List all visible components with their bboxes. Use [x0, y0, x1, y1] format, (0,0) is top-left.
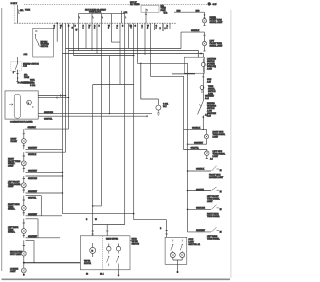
right switch symbol upper — [198, 101, 205, 118]
combination flasher box — [5, 91, 38, 119]
svg-text:GRN/BLK: GRN/BLK — [191, 30, 200, 32]
svg-text:B: B — [86, 219, 88, 221]
svg-text:BLK: BLK — [163, 106, 167, 108]
wire from switch down to H129 — [202, 117, 204, 129]
wire to right lamp 2 — [181, 32, 205, 48]
svg-text:2: 2 — [54, 28, 55, 30]
svg-text:W: W — [76, 29, 78, 31]
flasher lower wire 2 — [38, 115, 148, 117]
drop from H4 to lower wire — [108, 56, 110, 114]
bus drop 13 (long, to bottom right box) — [131, 23, 134, 220]
left wire L2 feed — [26, 151, 66, 153]
bus drop 14 (corner to right column) — [135, 23, 188, 232]
svg-text:GRN/ORN: GRN/ORN — [196, 207, 206, 209]
svg-text:B: B — [99, 25, 101, 27]
fuse in box — [146, 9, 147, 12]
washer box top marks — [35, 31, 38, 32]
svg-text:FUSE BLOCK: FUSE BLOCK — [89, 12, 102, 14]
svg-text:G-W: G-W — [213, 4, 217, 6]
HOT IN RUN rail — [79, 14, 125, 85]
left wire L5 gnd — [26, 237, 61, 239]
svg-text:LIGHT: LIGHT — [213, 137, 219, 139]
svg-text:MARKER LIGHT: MARKER LIGHT — [209, 176, 224, 179]
svg-text:RED: RED — [177, 10, 182, 12]
svg-text:GRN/YEL: GRN/YEL — [44, 119, 52, 121]
lamp L7 — [21, 263, 26, 274]
svg-text:1: 1 — [117, 28, 118, 30]
right branch switch 1 — [187, 166, 222, 172]
bottom right feed — [134, 220, 167, 238]
svg-text:B: B — [160, 28, 162, 30]
above-bus vertical from HOT box — [145, 12, 147, 23]
svg-text:GRN/WHT: GRN/WHT — [28, 214, 38, 216]
arrows inside box — [9, 104, 13, 106]
svg-text:SIGNAL LIGHT: SIGNAL LIGHT — [210, 44, 224, 47]
lamp3 return wire — [188, 139, 207, 145]
bus drop 16 (corner to right column) — [147, 23, 184, 129]
svg-text:GRN/YEL: GRN/YEL — [196, 190, 204, 192]
top dashed panel line — [24, 4, 215, 6]
svg-text:GRN/BLK: GRN/BLK — [192, 128, 201, 130]
svg-text:W: W — [95, 219, 97, 221]
svg-text:A 2: A 2 — [210, 158, 213, 161]
flasher output wire 2 — [38, 97, 68, 99]
bus junction dot — [56, 22, 58, 24]
svg-text:SWITCH: SWITCH — [41, 46, 49, 48]
left wire L5 feed — [26, 219, 39, 238]
bus drop 15 — [142, 23, 146, 55]
bottom center connections — [93, 85, 102, 236]
right lamp 4 feed — [184, 150, 207, 152]
svg-text:1: 1 — [167, 28, 168, 30]
left wire L1 feed — [25, 128, 69, 130]
svg-text:RED: RED — [196, 10, 201, 12]
svg-text:G 202: G 202 — [30, 85, 35, 87]
top-right corner symbol — [208, 2, 211, 5]
svg-text:GRN/YEL: GRN/YEL — [28, 198, 36, 200]
bus drop 12 — [129, 23, 132, 48]
H 213.6 collector — [63, 213, 134, 215]
right lamp 4 — [205, 151, 209, 155]
svg-text:LIGHT: LIGHT — [8, 186, 14, 188]
lamp4 ground stub — [206, 155, 208, 158]
svg-text:FUSE: FUSE — [25, 10, 31, 12]
svg-text:SWITCH: SWITCH — [132, 244, 140, 246]
braid H3 — [63, 54, 204, 58]
svg-text:REAR WIPER: REAR WIPER — [106, 237, 119, 240]
svg-text:L: L — [28, 103, 29, 105]
connector arrow A — [204, 12, 206, 19]
lamp right-1 — [202, 19, 206, 23]
ground dot under L7 — [23, 274, 25, 276]
left wire L2 gnd — [26, 171, 63, 173]
switches inside — [171, 240, 173, 253]
svg-text:FUSE: FUSE — [24, 77, 30, 79]
svg-text:LIGHT: LIGHT — [10, 271, 16, 273]
bus drop 6 — [76, 23, 79, 50]
bus drop 5 (H4 corner) — [74, 23, 77, 55]
bus drop 9 — [108, 23, 120, 42]
svg-text:TURN SIGNAL: TURN SIGNAL — [207, 238, 220, 241]
svg-text:COMBINATION FLASHER: COMBINATION FLASHER — [10, 121, 33, 124]
svg-text:A 305: A 305 — [207, 68, 212, 71]
H feed lamp3 — [184, 129, 207, 134]
bus drop 4 (long, lamp1 feed) — [69, 23, 74, 129]
svg-text:FRONT: FRONT — [11, 141, 18, 143]
svg-text:4: 4 — [156, 28, 157, 30]
motor circle inside — [27, 100, 32, 105]
svg-text:A 16: A 16 — [207, 115, 211, 118]
small circle right chain — [200, 86, 204, 90]
svg-text:GRN/YEL: GRN/YEL — [191, 148, 199, 150]
x183.5 continues to lamp4 feed — [183, 129, 185, 149]
lamp L4 — [21, 196, 26, 216]
lamp L6 — [21, 240, 26, 262]
left wire L4 feed — [26, 196, 42, 216]
svg-text:6: 6 — [131, 28, 132, 30]
svg-text:21 1: 21 1 — [100, 274, 104, 276]
bus drop 8 (long, to bottom box) — [99, 23, 102, 206]
svg-text:GRN/ORN: GRN/ORN — [28, 178, 38, 180]
ground below bottom center box — [118, 270, 120, 276]
svg-text:SWITCH A 21: SWITCH A 21 — [188, 243, 200, 246]
svg-text:3: 3 — [165, 28, 166, 30]
svg-text:SIGNAL: SIGNAL — [8, 231, 15, 234]
left switch (hazard) dashed box — [11, 57, 21, 82]
svg-text:GRN/BLK: GRN/BLK — [28, 127, 37, 129]
connector rounded rect inside — [14, 94, 20, 118]
svg-text:B: B — [122, 25, 124, 27]
svg-text:G: G — [135, 25, 137, 27]
svg-text:STOP LIGHT: STOP LIGHT — [10, 254, 22, 256]
lamps inside bottom right box — [170, 253, 175, 258]
flasher output wire 1 — [38, 94, 65, 96]
bus drop 10 — [117, 23, 121, 84]
lamp L1 — [21, 129, 26, 149]
svg-text:M: M — [92, 251, 94, 253]
braid H2 — [69, 51, 199, 58]
washer switch box — [33, 28, 54, 57]
element inside right box — [202, 59, 204, 73]
switch inside washer box — [36, 36, 40, 47]
svg-text:3: 3 — [60, 28, 61, 30]
svg-text:2: 2 — [13, 72, 14, 74]
right chain: defogger box — [184, 57, 204, 73]
svg-text:GRN/WHT: GRN/WHT — [28, 236, 38, 238]
svg-text:TURN SIGNAL: TURN SIGNAL — [207, 215, 220, 218]
left wire L3 feed — [26, 175, 63, 177]
switches below circles — [107, 251, 109, 266]
right branch switch 3 — [187, 205, 222, 211]
wire to right lamp chain — [174, 11, 205, 13]
svg-text:GRN/WHT: GRN/WHT — [28, 170, 38, 172]
bus drop 1 — [54, 23, 58, 42]
ground G101 — [16, 78, 19, 84]
svg-text:30 15 X: 30 15 X — [11, 3, 18, 5]
bottom center box — [80, 236, 130, 270]
svg-text:18: 18 — [86, 274, 88, 276]
dashed bus line — [14, 22, 176, 24]
svg-text:7: 7 — [142, 28, 143, 30]
below right box: connector — [202, 73, 204, 101]
left wire L6 feed — [26, 240, 35, 262]
left wire L4 gnd — [26, 215, 63, 217]
braid H4 — [74, 55, 134, 57]
svg-text:GRN/ORN: GRN/ORN — [44, 112, 54, 114]
bottom right box — [165, 237, 187, 264]
page bottom edge — [2, 278, 231, 280]
ground below bottom right box — [177, 264, 179, 271]
svg-text:SIGNAL LIGHT: SIGNAL LIGHT — [210, 21, 224, 24]
jog H — [93, 84, 134, 86]
svg-text:5: 5 — [89, 28, 90, 30]
left wire L1 gnd — [26, 148, 63, 150]
HOT AT ALL TIMES box — [141, 6, 159, 13]
bus drop 19 — [167, 23, 171, 29]
junction dot H4/drop13 — [133, 55, 135, 57]
svg-text:LIGHT: LIGHT — [8, 165, 14, 167]
svg-text:GRN/WHT: GRN/WHT — [28, 147, 38, 149]
thick dark wire — [24, 262, 81, 264]
svg-text:A 16: A 16 — [207, 81, 211, 84]
svg-text:A 14: A 14 — [205, 97, 209, 100]
bus drop 7b — [89, 23, 93, 50]
svg-text:B: B — [75, 25, 77, 27]
lamp L2 — [21, 152, 26, 172]
dashed divider — [101, 236, 103, 270]
connector tick — [14, 71, 19, 73]
bus drop 11 (long, to bottom box) — [122, 25, 125, 224]
svg-text:GRN/WHT: GRN/WHT — [28, 191, 38, 193]
svg-text:2: 2 — [94, 28, 95, 30]
lamp L5 — [21, 219, 26, 238]
rail fuse blobs — [79, 17, 126, 19]
small dot inside — [32, 106, 33, 107]
svg-text:ALL TIMES: ALL TIMES — [130, 3, 140, 6]
svg-text:LIGHT: LIGHT — [207, 201, 213, 203]
svg-text:W-R: W-R — [164, 13, 168, 15]
svg-text:LIGHT: LIGHT — [213, 156, 219, 158]
junction dot braid H3 — [200, 53, 202, 55]
bus drop 3 (long, lamp2 feed) — [66, 23, 71, 152]
dashed fuse panel left edge — [13, 5, 15, 22]
dark wire segment right — [172, 73, 195, 75]
bus drop 7c — [94, 23, 97, 53]
above-bus vertical at 121.5 — [121, 11, 123, 23]
svg-text:A 21: A 21 — [124, 11, 128, 14]
page right edge — [230, 10, 232, 278]
svg-text:GRN/WHT: GRN/WHT — [194, 142, 204, 144]
svg-text:1: 1 — [83, 28, 84, 30]
junction dot — [17, 77, 18, 78]
page left edge — [1, 8, 3, 271]
svg-text:2: 2 — [147, 28, 148, 30]
bus drop 2 (to H3) — [60, 23, 63, 213]
svg-text:GRN/WHT: GRN/WHT — [196, 230, 206, 232]
fuse F1 — [18, 5, 20, 23]
right lamp 3 — [204, 134, 208, 138]
svg-text:GRN/BLK: GRN/BLK — [196, 169, 205, 171]
svg-text:GRN/BLK: GRN/BLK — [28, 154, 37, 156]
lamp L3 — [21, 176, 26, 193]
svg-text:MOTOR: MOTOR — [84, 263, 92, 265]
right branch switch 4 (end of vertical) — [188, 227, 222, 233]
junction dot thick wire — [23, 262, 25, 264]
right branch switch 2 — [187, 187, 222, 193]
svg-text:B: B — [160, 228, 162, 230]
svg-text:A 21: A 21 — [24, 53, 28, 56]
lamp right-2 lower stub — [203, 46, 205, 51]
svg-text:8: 8 — [108, 28, 109, 30]
bus drop 18 — [160, 23, 166, 31]
circles right pair — [107, 247, 111, 251]
bus drop 17 — [155, 23, 158, 30]
left wire L3 gnd — [26, 192, 63, 194]
bus drop 7 — [83, 23, 87, 48]
svg-text:SIGNAL: SIGNAL — [8, 208, 15, 211]
motor circle left — [90, 247, 96, 253]
mid circle component to ground — [140, 63, 161, 116]
braid H1 — [66, 48, 182, 50]
flasher lower wire 1 — [38, 113, 152, 115]
lamp right-2 — [202, 42, 206, 46]
svg-text:15A: 15A — [20, 9, 24, 12]
lamp right-1 ground stub — [203, 23, 205, 26]
svg-text:A 22: A 22 — [23, 65, 27, 68]
